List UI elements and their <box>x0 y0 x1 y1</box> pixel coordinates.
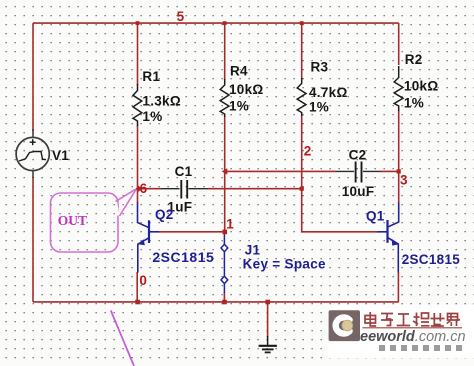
svg-text:R4: R4 <box>230 63 248 78</box>
svg-text:2SC1815: 2SC1815 <box>152 249 214 265</box>
svg-text:OUT: OUT <box>58 213 87 228</box>
svg-text:10uF: 10uF <box>342 184 375 199</box>
svg-text:J1: J1 <box>245 243 261 258</box>
svg-text:1%: 1% <box>229 99 249 114</box>
svg-text:0: 0 <box>139 273 147 288</box>
svg-text:V1: V1 <box>52 148 69 163</box>
svg-text:R3: R3 <box>311 59 329 74</box>
svg-text:6: 6 <box>140 181 148 196</box>
svg-text:C2: C2 <box>349 147 367 162</box>
svg-text:4.7kΩ: 4.7kΩ <box>309 85 348 100</box>
svg-text:1%: 1% <box>309 100 329 115</box>
svg-text:1: 1 <box>226 216 234 231</box>
svg-text:2: 2 <box>304 144 312 159</box>
svg-text:Key = Space: Key = Space <box>243 256 326 271</box>
svg-text:10kΩ: 10kΩ <box>229 82 264 97</box>
svg-text:C1: C1 <box>175 164 193 179</box>
svg-text:5: 5 <box>177 9 185 24</box>
svg-text:10kΩ: 10kΩ <box>404 79 439 94</box>
svg-text:3: 3 <box>400 173 408 188</box>
svg-text:1%: 1% <box>142 109 162 124</box>
svg-text:Q1: Q1 <box>366 209 385 224</box>
svg-text:2SC1815: 2SC1815 <box>402 252 461 267</box>
svg-text:1.3kΩ: 1.3kΩ <box>142 94 181 109</box>
svg-text:R2: R2 <box>405 52 423 67</box>
svg-text:1%: 1% <box>404 96 424 111</box>
svg-text:R1: R1 <box>142 69 160 84</box>
svg-text:Q2: Q2 <box>155 207 174 222</box>
svg-text:eeworld.com.cn: eeworld.com.cn <box>360 329 466 345</box>
